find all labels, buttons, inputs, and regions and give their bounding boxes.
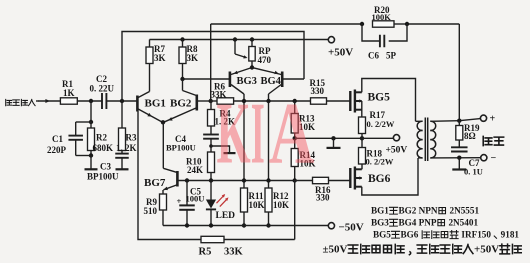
node C1-R2 top — [89, 120, 93, 124]
resistor R9 — [162, 190, 164, 194]
svg-text:BG3: BG3 — [371, 218, 389, 228]
node R12 top bus — [266, 99, 270, 103]
svg-text:24K: 24K — [187, 165, 203, 175]
resistor R8 — [182, 40, 184, 48]
capacitor C7 — [451, 146, 468, 148]
wire rail2 feedback — [138, 112, 201, 240]
wire C1 bottom — [75, 140, 77, 156]
resistor R20 — [373, 21, 395, 27]
svg-text:5P: 5P — [386, 51, 397, 61]
svg-text:R5: R5 — [199, 247, 212, 258]
LED D1 — [210, 181, 212, 200]
wire rail1 -50V — [163, 225, 328, 227]
wire secondary bottom — [430, 157, 481, 159]
node R14 bottom — [293, 178, 297, 182]
svg-text:BG2 NPN: BG2 NPN — [398, 206, 437, 216]
node R8 rail — [180, 37, 184, 41]
wire primary top — [416, 120, 423, 122]
node R13 top — [293, 99, 297, 103]
terminal +50V — [328, 37, 334, 43]
ground C4 — [224, 152, 236, 154]
svg-text:33K: 33K — [224, 247, 244, 258]
node C5 top — [185, 178, 189, 182]
wire feedback down — [458, 24, 460, 121]
svg-text:BG5: BG5 — [373, 230, 391, 240]
svg-text:680K: 680K — [93, 143, 114, 153]
svg-text:BP100U: BP100U — [166, 143, 196, 153]
svg-text:470: 470 — [258, 55, 272, 65]
wire C5 bottom — [186, 210, 188, 226]
wire C7 gnd — [458, 158, 460, 169]
svg-text:±50V: ±50V — [323, 244, 348, 256]
transistor BG1 — [136, 96, 139, 112]
svg-text:0. 22U: 0. 22U — [90, 84, 115, 94]
svg-text:C1: C1 — [52, 134, 63, 144]
node R11 lower bus — [242, 178, 246, 182]
svg-text:+50V: +50V — [328, 47, 353, 59]
transformer primary coil — [417, 121, 422, 130]
wire BG6 drain — [362, 158, 418, 195]
svg-text:BG1: BG1 — [371, 206, 389, 216]
svg-text:BP100U: BP100U — [87, 172, 119, 182]
svg-text:−: − — [491, 153, 497, 164]
ground output — [452, 168, 466, 170]
transistor BG2 — [196, 95, 199, 111]
node R20 left — [360, 22, 364, 26]
svg-text:I: I — [251, 84, 265, 182]
svg-text:C6: C6 — [368, 51, 379, 61]
resistor R4 — [210, 101, 212, 110]
ground C3 — [116, 168, 129, 170]
svg-text:3K: 3K — [187, 53, 199, 63]
watermark KIA — [217, 84, 315, 183]
wire C3-gnd — [121, 158, 123, 169]
resistor R12 — [265, 188, 272, 212]
node R11 rail — [242, 223, 246, 227]
wire BG3 base — [183, 78, 230, 80]
resistor R19 — [458, 121, 460, 126]
wire R2-gnd — [90, 156, 92, 169]
node C5 rail — [185, 223, 189, 227]
wire R1-C2 — [77, 100, 102, 102]
resistor R14 — [294, 138, 296, 148]
capacitor C4 — [210, 126, 212, 135]
node R10-LED — [209, 178, 213, 182]
node emitters tail — [161, 120, 165, 124]
wire mid-50V — [362, 137, 393, 139]
node R20 right — [405, 22, 409, 26]
svg-text:BG1: BG1 — [145, 98, 166, 110]
resistor R2 — [90, 122, 92, 128]
svg-text:0. 1U: 0. 1U — [464, 167, 483, 177]
wire gnd mid stub — [333, 138, 335, 147]
wire gnd stub — [211, 146, 230, 153]
svg-text:BG5: BG5 — [368, 92, 391, 104]
svg-text:+: + — [177, 196, 182, 206]
terminal -50V — [328, 223, 334, 229]
node feedback-output — [457, 119, 461, 123]
svg-text:8Ω: 8Ω — [464, 131, 476, 141]
resistor R6 — [211, 100, 217, 102]
resistor R1 — [60, 98, 77, 104]
svg-text:R3: R3 — [126, 133, 137, 143]
svg-text:1. 2K: 1. 2K — [116, 143, 137, 153]
node BG3/BG4 emitters — [250, 65, 254, 69]
ground R2 — [85, 168, 98, 170]
svg-text:−50V: −50V — [339, 222, 364, 234]
wire line A — [211, 23, 362, 25]
svg-text:0. 2/2W: 0. 2/2W — [366, 157, 394, 167]
svg-text:10K: 10K — [273, 200, 289, 210]
svg-text:BG6: BG6 — [400, 230, 420, 240]
capacitor C2 — [101, 93, 103, 109]
transformer core — [424, 118, 426, 162]
wire RP wiper — [234, 40, 236, 55]
resistor R5 — [201, 236, 224, 242]
svg-text:C2: C2 — [96, 74, 107, 84]
wire secondary top — [430, 120, 459, 123]
node R2 bottom — [89, 153, 93, 157]
wire line B — [122, 32, 304, 102]
svg-text:100K: 100K — [372, 12, 392, 22]
wire C6 loop — [362, 24, 380, 41]
svg-text:BG4 PNP: BG4 PNP — [398, 218, 436, 228]
wire BG5 drain — [362, 79, 416, 122]
capacitor C3 — [121, 151, 123, 154]
node R12 rail — [266, 223, 270, 227]
resistor R11 — [241, 188, 248, 212]
transistor BG4 — [281, 72, 284, 88]
LED arrows — [217, 195, 225, 203]
svg-text:LED: LED — [216, 211, 236, 221]
svg-text:R2: R2 — [96, 133, 107, 143]
transistor BG3 — [229, 72, 232, 88]
svg-text:BG7: BG7 — [144, 177, 166, 189]
node R17-R18 — [360, 136, 364, 140]
svg-text:10K: 10K — [249, 200, 265, 210]
resistor R13 — [294, 101, 296, 114]
terminal output+ — [480, 115, 486, 121]
node R11 top bus — [242, 99, 246, 103]
node C2 out — [120, 99, 124, 103]
transistor BG7 — [176, 171, 179, 187]
node R12 lower bus — [266, 178, 270, 182]
wire BG7 base — [178, 180, 211, 182]
wire BG2 collector — [182, 79, 184, 91]
terminal output- — [481, 155, 487, 161]
transistor BG6 — [349, 168, 351, 188]
svg-text:BG6: BG6 — [368, 173, 391, 185]
svg-text:+: + — [490, 114, 496, 125]
wire line A up — [210, 24, 212, 101]
wire R2 top — [90, 101, 92, 122]
svg-text:+50V: +50V — [474, 244, 499, 256]
node C7 bottom — [457, 156, 461, 160]
resistor R10 — [208, 152, 215, 173]
wire R12 column — [268, 94, 270, 188]
capacitor C1 — [68, 135, 83, 137]
ground mid — [327, 147, 341, 149]
wire input — [38, 100, 60, 102]
svg-text:K: K — [217, 85, 251, 182]
node R8-BG3 — [180, 77, 184, 81]
svg-text:0. 2/2W: 0. 2/2W — [367, 119, 395, 129]
wire mid line — [295, 137, 362, 139]
svg-text:220P: 220P — [47, 145, 67, 155]
wire C1 top — [76, 121, 91, 123]
label input 信号输入 — [6, 99, 12, 105]
wire lower bus — [211, 180, 295, 182]
svg-text:2N5401: 2N5401 — [446, 218, 478, 228]
resistor R18 — [361, 138, 363, 147]
capacitor C5 — [186, 181, 188, 206]
svg-text:BG2: BG2 — [170, 98, 192, 110]
potentiometer RP — [251, 40, 253, 47]
node R13-R14 — [293, 136, 297, 140]
resistor R7 — [149, 40, 151, 48]
node C4 bottom — [209, 144, 213, 148]
wire C4-R10 — [210, 139, 212, 152]
svg-text:A: A — [269, 84, 315, 182]
resistor R3 — [121, 101, 123, 128]
svg-text:330: 330 — [316, 193, 330, 203]
wire primary bottom — [418, 157, 423, 159]
wire BG4 base — [282, 78, 304, 80]
svg-text:510: 510 — [144, 206, 158, 216]
wire R11 column — [243, 94, 245, 188]
resistor R16 — [295, 180, 313, 182]
transformer secondary coil — [430, 121, 435, 130]
wire R14-rail2 — [294, 181, 296, 240]
svg-text:2N5551: 2N5551 — [447, 206, 479, 216]
svg-text:3K: 3K — [154, 53, 166, 63]
svg-text:9181: 9181 — [501, 230, 520, 240]
svg-text:C3: C3 — [100, 162, 111, 172]
svg-text:+50V: +50V — [386, 146, 408, 156]
node after R1 — [89, 99, 93, 103]
wire C2-BG1 — [106, 100, 136, 102]
transistor BG5 — [349, 91, 351, 111]
terminal +50V mid — [393, 135, 399, 141]
node BG2 base — [209, 99, 213, 103]
wire BG5 source — [361, 101, 363, 117]
svg-text:1K: 1K — [63, 88, 75, 98]
node RP rail — [250, 37, 254, 41]
capacitor C6 — [379, 35, 381, 48]
node gnd mid — [331, 136, 335, 140]
node wiper rail — [233, 37, 237, 41]
resistor R17 — [359, 117, 366, 134]
wire +50V rail — [150, 39, 329, 41]
wire tail down — [162, 122, 164, 168]
label 输出 — [483, 136, 492, 145]
svg-text:IRF150: IRF150 — [459, 230, 491, 240]
resistor R15 — [311, 98, 327, 104]
svg-text:100U: 100U — [186, 194, 205, 204]
node LED rail — [209, 223, 213, 227]
